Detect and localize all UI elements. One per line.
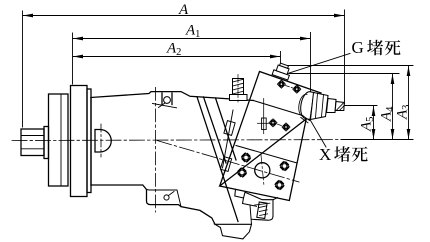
bolt TR bbox=[280, 161, 289, 170]
G plug mid bbox=[276, 65, 289, 74]
shaft hex flats bbox=[21, 135, 44, 137]
dim A5 vertical line bbox=[373, 106, 375, 139]
port hex nut bbox=[311, 93, 329, 120]
svg-text:G: G bbox=[352, 38, 364, 57]
dim A extension line left bbox=[22, 11, 24, 127]
leader line G plug bbox=[288, 54, 351, 74]
dim A1 extension line right bbox=[310, 33, 312, 97]
big circle crosshair v bbox=[261, 155, 264, 186]
bleed valve hatch bbox=[233, 79, 244, 94]
bolt circles with socket marks bbox=[237, 153, 289, 190]
bottom foot bbox=[147, 190, 216, 225]
block face top line bbox=[236, 146, 297, 164]
G plug top bbox=[280, 63, 289, 68]
hex inner lines bbox=[316, 93, 324, 117]
seal housing cylinder bbox=[49, 94, 69, 186]
bottom pad bbox=[215, 224, 252, 239]
shaft threaded end bbox=[21, 129, 44, 156]
foot top line bbox=[147, 190, 182, 207]
block outline bbox=[220, 72, 321, 201]
body left edge bbox=[90, 98, 92, 186]
svg-text:A2: A2 bbox=[166, 41, 181, 59]
side boss inner line bbox=[94, 130, 96, 153]
bottom reference line at centerline level bbox=[341, 139, 413, 141]
dim A2 extension line right bbox=[280, 52, 282, 72]
bracket inner lines bbox=[250, 205, 257, 224]
plug diamond top 1 bbox=[277, 80, 285, 88]
svg-text:X: X bbox=[319, 145, 331, 164]
svg-text:A5: A5 bbox=[359, 117, 377, 132]
block internal top edge bbox=[253, 101, 304, 117]
shaft collar bbox=[44, 127, 49, 159]
dim A4 top reference line bbox=[289, 73, 399, 75]
small stud on upper face bbox=[258, 99, 270, 134]
dim A4 vertical line bbox=[392, 74, 394, 139]
leader line X port bbox=[305, 111, 326, 147]
bleed valve centerline bbox=[237, 75, 239, 104]
top clamp verticals bbox=[162, 93, 172, 105]
vertical centerline through body bbox=[155, 87, 157, 212]
dash between mid diamonds bbox=[278, 124, 282, 125]
foot drain plug tick bbox=[169, 192, 175, 196]
plug diamond mid 1 bbox=[269, 119, 277, 127]
dim A1 line bbox=[73, 38, 310, 40]
svg-text:A: A bbox=[178, 2, 189, 18]
port boss bottom wedge bbox=[301, 116, 310, 123]
bleed valve base bbox=[230, 95, 248, 101]
bent axis centerline bbox=[157, 141, 299, 183]
svg-text:A1: A1 bbox=[185, 23, 200, 41]
main horizontal centerline bbox=[12, 139, 341, 142]
side boss with round cap bbox=[95, 130, 111, 153]
port step bbox=[327, 99, 337, 113]
port threaded tip bbox=[335, 102, 344, 111]
plate boss upper bbox=[224, 121, 235, 136]
plug diamond mid 2 bbox=[282, 123, 290, 131]
dim A line bbox=[23, 15, 344, 17]
joint steep line beta bbox=[216, 98, 237, 160]
bracket outline bbox=[235, 189, 278, 220]
dim A extension line right bbox=[344, 10, 346, 104]
bottom plug hatch bbox=[259, 206, 268, 216]
dim A5 top reference line bbox=[345, 105, 378, 107]
body bottom edge bbox=[91, 185, 147, 190]
joint steep line alpha bbox=[197, 97, 238, 222]
boss centerline vertical bbox=[100, 124, 102, 157]
bottom plug cross tick bbox=[255, 203, 270, 205]
flange ring bbox=[87, 89, 91, 193]
dim A1 extension line left bbox=[72, 33, 74, 84]
bleed valve stud bbox=[233, 79, 244, 95]
port boss outline bbox=[301, 92, 314, 120]
bolt BL bbox=[237, 168, 246, 177]
bolt BR bbox=[275, 180, 284, 189]
top clamp tilted bar bbox=[153, 103, 177, 108]
svg-text:A4: A4 bbox=[379, 106, 397, 122]
tip hatch bbox=[337, 103, 345, 110]
bolt TL bbox=[241, 153, 250, 162]
big port circle bbox=[255, 163, 270, 178]
plate boss lower bbox=[220, 157, 231, 172]
port boss inner arc bbox=[299, 94, 307, 116]
dim A3 vertical line bbox=[408, 66, 410, 139]
plug diamond top 2 bbox=[293, 85, 301, 93]
dash between top diamonds bbox=[286, 86, 293, 88]
top clamp circle bbox=[164, 97, 171, 104]
dim A3 top reference line bbox=[284, 65, 413, 67]
body top edge bbox=[91, 92, 253, 101]
seal housing inner line bbox=[60, 94, 62, 186]
dim A2 line bbox=[73, 56, 280, 58]
foot drain plug circle bbox=[164, 195, 169, 200]
mounting flange bbox=[71, 86, 88, 197]
svg-text:A3: A3 bbox=[395, 105, 413, 120]
G plug base bbox=[272, 70, 289, 80]
side plate edge bbox=[223, 110, 234, 168]
bottom plug stud bbox=[257, 202, 267, 219]
joint steep line alpha2 bbox=[204, 97, 227, 163]
